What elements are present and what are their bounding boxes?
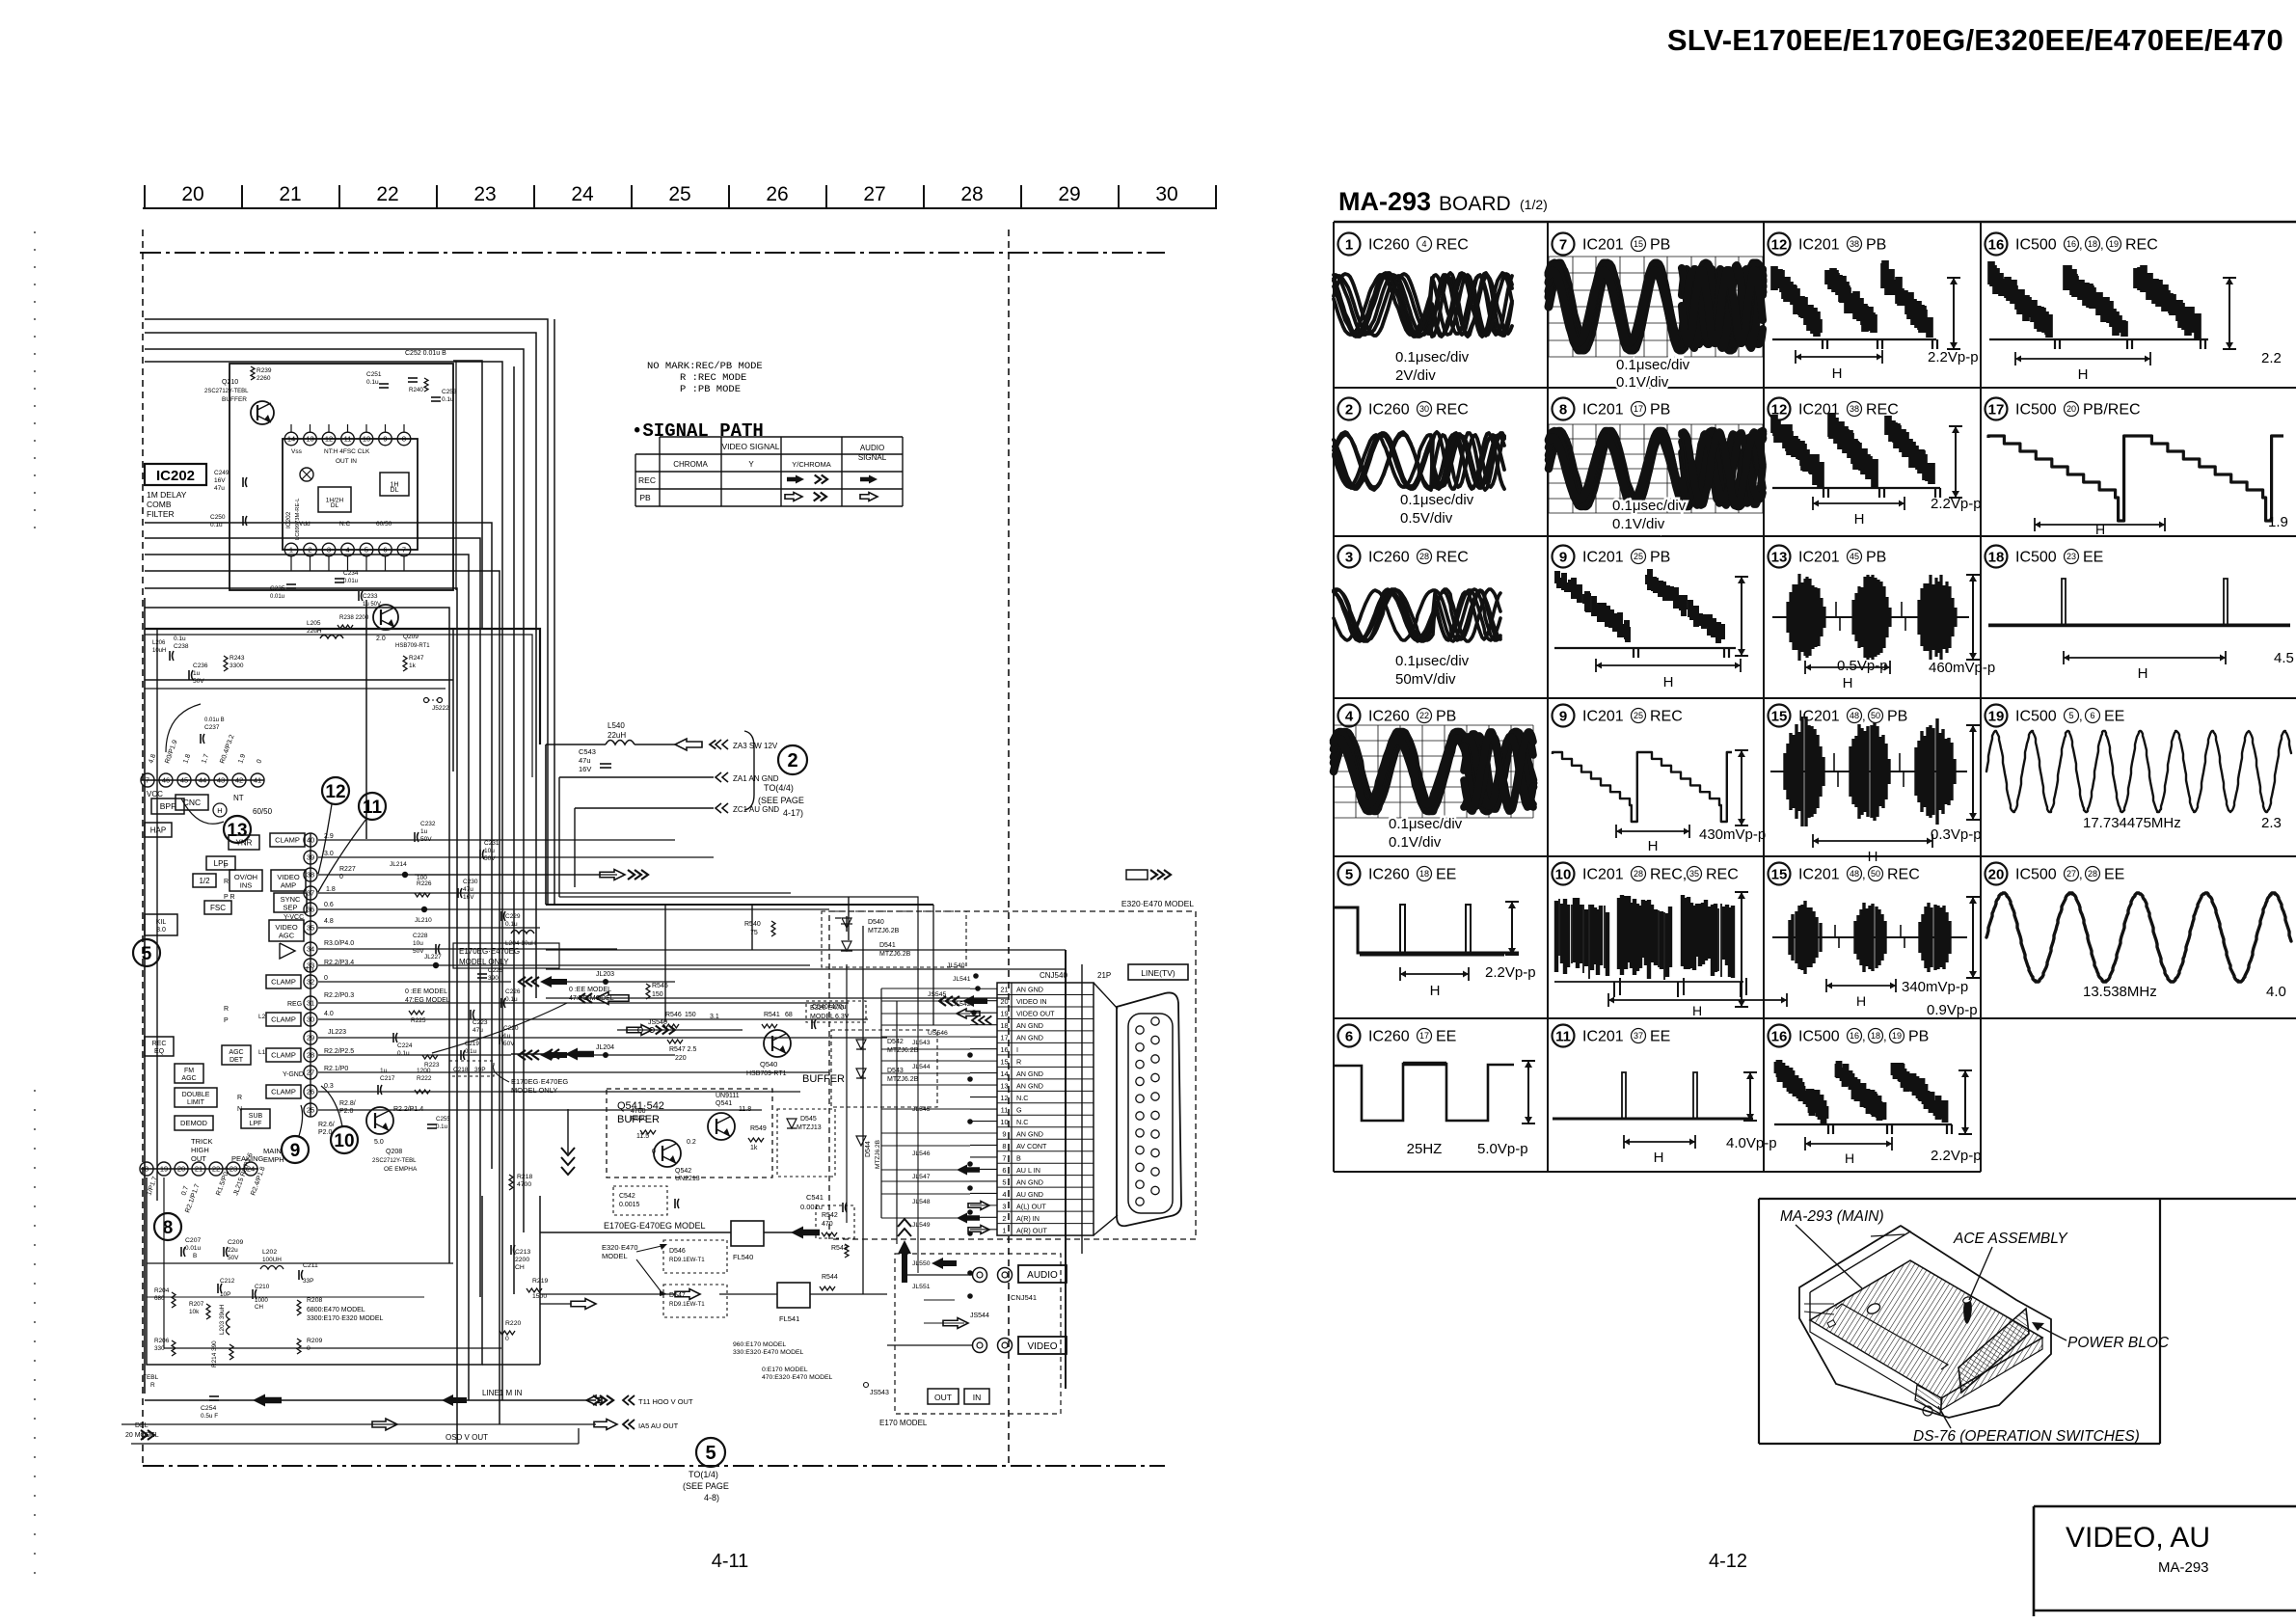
E320 E470 model small label [806,1001,866,1022]
svg-text:AN GND: AN GND [1016,1021,1043,1030]
svg-text:4-8): 4-8) [704,1493,719,1502]
svg-text:FM: FM [184,1068,194,1074]
schematic dashed border left [142,230,144,1466]
scope cell 20 IC500 pins27,28 EE [1985,863,2008,885]
svg-text:LIMIT: LIMIT [187,1099,205,1106]
bracket for TO4 [744,731,754,810]
open arrow to FL541 [675,1289,700,1300]
scope cell 1 IC260 pin4 REC [1338,233,1361,256]
svg-text:D540: D540 [868,919,884,926]
svg-text:23: 23 [473,183,496,205]
circled 11 [359,793,386,820]
black arrow to FL540 [791,1227,820,1239]
svg-text:27: 27 [863,183,885,205]
svg-text:50V: 50V [503,1041,515,1047]
capacitor C255 [427,1123,437,1125]
svg-text:H: H [2078,366,2089,383]
svg-text:OUT: OUT [934,1393,952,1402]
svg-text:13: 13 [1771,549,1788,565]
svg-text:0.1u: 0.1u [436,1123,448,1130]
black arrow left mid [565,1048,594,1061]
svg-text:REC: REC [1650,709,1683,725]
capacitor C207 [180,1247,182,1257]
svg-text:12: 12 [1000,1094,1008,1102]
svg-text:C238: C238 [174,643,189,650]
svg-text:D545: D545 [800,1116,817,1123]
svg-text:ZC1 AU GND: ZC1 AU GND [733,805,779,814]
svg-text:CH: CH [255,1304,263,1311]
angled label R0/P1.9 zone [166,704,201,752]
svg-text:37: 37 [307,889,314,898]
VIDEO label box [1018,1337,1067,1354]
svg-text:10u: 10u [413,940,423,947]
svg-text:12: 12 [325,435,333,444]
capacitor C229 [500,911,502,921]
box OV/OH INS [230,870,262,891]
svg-text:18: 18 [1988,549,2005,565]
svg-text:I: I [1016,1045,1018,1054]
svg-text:CH: CH [515,1264,525,1271]
svg-text:C213: C213 [515,1249,530,1256]
svg-text:AU GND: AU GND [1016,1190,1043,1199]
svg-text:22uH: 22uH [608,731,626,740]
svg-text:C217: C217 [380,1075,395,1082]
svg-text:C226: C226 [505,988,521,995]
svg-text:1u: 1u [420,828,428,835]
capacitor C237 [200,734,202,744]
svg-text:42: 42 [235,776,243,785]
svg-text:48: 48 [1850,711,1859,720]
capacitor C231 [479,850,481,859]
svg-text:MODEL ONLY: MODEL ONLY [511,1086,557,1095]
down chevrons under buffer [561,1148,575,1155]
model note box E170EG [453,943,559,968]
svg-text:PB: PB [1650,237,1670,254]
svg-text:MTZJ6.2B: MTZJ6.2B [887,1076,919,1083]
svg-text:11.8: 11.8 [739,1106,751,1113]
svg-text:2: 2 [787,750,797,771]
svg-text:C230: C230 [463,879,478,885]
svg-text:1: 1 [289,546,293,555]
svg-text:OUT IN: OUT IN [336,458,357,465]
OUT IN boxes [928,1389,959,1404]
box FM AGC [175,1064,203,1083]
svg-text:JS544: JS544 [970,1313,989,1319]
svg-text:6: 6 [383,546,387,555]
black arrow audio [932,1258,957,1269]
svg-text:ACE ASSEMBLY: ACE ASSEMBLY [1953,1231,2068,1247]
svg-text:9: 9 [290,1141,301,1161]
svg-text:H: H [1430,983,1441,999]
svg-text:330:E320·E470 MODEL: 330:E320·E470 MODEL [733,1349,804,1356]
svg-text:P R: P R [224,894,235,901]
svg-text:BPF: BPF [160,801,176,811]
audio jacks [973,1268,987,1283]
scope cell 13 IC201 pin45 PB [1769,546,1791,568]
transistor Q541 [708,1113,735,1140]
box VIDEO AGC [269,920,304,941]
box CLAMP pin28 [266,1048,301,1062]
svg-text:21P: 21P [1097,971,1111,980]
svg-text:44: 44 [199,776,206,785]
box HAP [145,823,172,837]
svg-text:D541: D541 [879,942,896,949]
zener D540 D541 dashed box [822,911,966,967]
svg-text:SLV-E170EE/E170EG/E320EE/E470E: SLV-E170EE/E170EG/E320EE/E470EE/E470 [1667,23,2283,57]
resistor R243 [224,656,228,671]
svg-text:17: 17 [1419,1031,1429,1041]
svg-text:REC: REC [1436,237,1469,254]
wire ZA1 AN GND [559,776,714,778]
svg-text:47u: 47u [214,485,225,492]
svg-text:6: 6 [2090,711,2094,720]
svg-text:AN GND: AN GND [1016,986,1043,994]
svg-text:1: 1 [1002,1226,1006,1234]
wire fl540 line [540,1232,731,1233]
capacitor C228 [435,944,437,954]
svg-text:IC260: IC260 [1368,550,1410,566]
svg-text:C224: C224 [397,1042,413,1049]
svg-text:C212: C212 [220,1278,235,1285]
svg-text:AV CONT: AV CONT [1016,1142,1047,1150]
svg-text:CLAMP: CLAMP [271,978,296,987]
svg-text:11: 11 [363,798,383,818]
svg-text:2260: 2260 [257,375,271,382]
svg-text:0 :EE MODEL: 0 :EE MODEL [405,988,447,995]
svg-text:TU: TU [305,967,313,974]
svg-text:4700: 4700 [517,1181,531,1188]
svg-text:IC260: IC260 [1368,1029,1410,1045]
svg-text:Vss: Vss [291,448,303,455]
svg-text:50V: 50V [193,678,204,685]
svg-text:60/50: 60/50 [376,521,392,528]
svg-text:PEAKING: PEAKING [231,1154,264,1163]
svg-text:,: , [2079,237,2083,252]
svg-text:,: , [2079,709,2083,723]
svg-text:5: 5 [365,546,368,555]
resistor R226 [415,893,430,897]
scope cell 15b IC201 pins48,50 REC [1769,863,1791,885]
box FSC [204,901,231,914]
svg-text:20: 20 [1000,997,1008,1006]
svg-text:E320·E470: E320·E470 [602,1243,638,1252]
svg-text:0.01u: 0.01u [270,594,284,600]
svg-text:8: 8 [145,1165,149,1174]
svg-text:DL: DL [391,487,399,494]
svg-text:SIGNAL: SIGNAL [858,453,887,462]
svg-text:G: G [1016,1106,1022,1115]
svg-text:Q210: Q210 [222,379,238,386]
svg-text:3: 3 [1345,549,1353,565]
scope cell 8 IC201 pin17 PB [1553,398,1575,420]
svg-text:PB: PB [1650,402,1670,419]
circled 13 [224,816,251,843]
svg-text:5: 5 [2068,711,2073,720]
svg-text:JL548: JL548 [912,1199,931,1205]
svg-text:50: 50 [1871,869,1880,879]
scope cell 6 IC260 pin17 EE [1338,1025,1361,1047]
svg-text:0.1u: 0.1u [366,379,379,386]
vertical collector wires [880,988,882,1218]
svg-text:2.3: 2.3 [2261,815,2282,831]
wire from IC202 top right [453,361,482,629]
svg-text:J5222: J5222 [432,705,449,712]
svg-text:26: 26 [307,1088,314,1096]
svg-text:FILTER: FILTER [147,509,175,519]
svg-text:IC500: IC500 [2015,402,2057,419]
svg-text:C542: C542 [619,1193,635,1200]
svg-text:28: 28 [1634,869,1643,879]
svg-text:BUFFER: BUFFER [802,1073,845,1085]
capacitor C233 [358,591,360,601]
svg-text:PB: PB [1887,709,1907,725]
svg-text:H: H [2138,665,2148,682]
svg-text:4.0: 4.0 [2266,984,2286,1000]
svg-text:0.001u: 0.001u [800,1203,823,1211]
svg-text:Y-VCC: Y-VCC [284,914,304,921]
svg-text:R208: R208 [307,1297,322,1304]
svg-text:H: H [1845,1150,1854,1166]
svg-text:R540: R540 [744,921,761,928]
svg-text:JL204: JL204 [596,1044,614,1051]
svg-text:R: R [237,1095,242,1101]
capacitor C223 [470,1010,472,1019]
capacitor C217 [377,1085,379,1095]
svg-text:18: 18 [1000,1021,1008,1030]
box KIL [145,914,177,935]
svg-text:Q208: Q208 [386,1149,402,1155]
capacitor C236 [188,670,190,680]
dashed box around jacks E170 [895,1254,1061,1414]
svg-text:3.1: 3.1 [710,1014,719,1020]
svg-text:8: 8 [402,435,406,444]
svg-text:SUB: SUB [249,1113,263,1120]
svg-text:Q541: Q541 [716,1100,732,1107]
svg-text:19: 19 [1000,1010,1008,1018]
svg-text:D547: D547 [669,1292,686,1299]
capacitor C218 dashed [449,1061,494,1076]
svg-text:(SEE PAGE: (SEE PAGE [683,1481,729,1491]
resistor R209 [297,1339,301,1354]
svg-text:MODEL ONLY: MODEL ONLY [459,958,509,966]
vertical feed wires center [545,744,547,905]
svg-text:1000: 1000 [255,1297,268,1304]
svg-text:0.1V/div: 0.1V/div [1612,516,1665,532]
svg-text:0.5u F: 0.5u F [201,1413,218,1420]
svg-text:17: 17 [1000,1034,1008,1042]
svg-text:R2.2/P1.4: R2.2/P1.4 [393,1106,423,1113]
open arrow ZA3 SW12V [675,739,702,750]
svg-text:C254: C254 [201,1405,216,1412]
svg-text:46: 46 [162,776,170,785]
svg-text:TRICK: TRICK [191,1137,213,1146]
connector to scart diagonals [1094,983,1118,1009]
svg-text:REC: REC [152,1041,167,1047]
svg-text:28: 28 [307,1051,314,1060]
svg-text:18: 18 [2088,239,2097,249]
svg-text:18: 18 [1419,869,1429,879]
svg-text:OSD V OUT: OSD V OUT [446,1433,488,1442]
board location diagram frame [1759,1198,2296,1200]
svg-text:Y: Y [748,460,754,469]
svg-text:C255: C255 [436,1116,450,1123]
svg-text:REC: REC [638,475,656,485]
black arrow into pin20 [962,995,987,1007]
box VIDEO AMP [271,870,306,891]
jumper JL214 [402,872,408,878]
svg-text:38: 38 [1850,239,1859,249]
svg-text:PB: PB [1866,237,1886,254]
svg-text:R547 2.5: R547 2.5 [669,1046,697,1053]
IC202 1H DL box [380,473,409,496]
wire ZC1 AU GND [575,807,714,809]
box YNR [229,835,259,850]
svg-text:IN: IN [973,1393,982,1402]
svg-text:13: 13 [306,435,313,444]
black arrow into pin6 AU L IN [957,1165,980,1176]
svg-text:19: 19 [2109,239,2119,249]
svg-text:JL551: JL551 [912,1284,931,1290]
svg-text:4: 4 [1421,239,1426,249]
svg-text:460mVp-p: 460mVp-p [1929,660,1995,676]
svg-text:0.1μsec/div: 0.1μsec/div [1395,349,1470,365]
wire LINE1 M IN [145,1399,596,1401]
svg-text:EE: EE [1650,1029,1670,1045]
svg-text:R222: R222 [417,1075,432,1082]
svg-text:C219: C219 [465,1041,479,1047]
box CLAMP pin32 with TU [266,975,301,988]
svg-text:2.2Vp-p: 2.2Vp-p [1931,496,1982,512]
svg-text:IC202: IC202 [285,511,292,528]
resistor R225 [409,1011,424,1015]
open arrow into pin19 [957,1009,980,1018]
svg-text:H: H [1832,365,1843,382]
svg-text:IC201: IC201 [1582,402,1624,419]
svg-text:IC260: IC260 [1368,867,1410,883]
long horizontal wires through center [546,968,1066,970]
svg-text:14: 14 [1000,1069,1008,1078]
svg-text:IC500: IC500 [1798,1029,1840,1045]
box CLAMP pin30 [266,1013,301,1026]
title block frame [2034,1505,2296,1508]
resistor R223 [422,1055,438,1059]
svg-text:MTZJ6.2B: MTZJ6.2B [879,951,911,958]
svg-text:MODEL: MODEL [602,1252,628,1260]
svg-text:2.2Vp-p: 2.2Vp-p [1928,349,1979,365]
svg-text:C210: C210 [255,1284,270,1290]
svg-text:0: 0 [505,1336,509,1342]
svg-text:IC260: IC260 [1368,402,1410,419]
svg-text:1k: 1k [750,1145,758,1151]
svg-text:JL214: JL214 [390,861,407,868]
svg-text:11: 11 [1555,1028,1571,1044]
svg-text:CLAMP: CLAMP [271,1051,296,1060]
svg-text:16: 16 [1771,1028,1788,1044]
resistor R238 [338,625,353,629]
svg-text:E170EG·E470EG: E170EG·E470EG [511,1077,568,1086]
svg-text:C232: C232 [420,821,436,827]
svg-text:VIDEO, AU: VIDEO, AU [2066,1522,2210,1554]
svg-text:27: 27 [2066,869,2076,879]
svg-text:5.0Vp-p: 5.0Vp-p [1477,1141,1528,1157]
resistor R204 [172,1292,176,1308]
svg-text:25HZ: 25HZ [1407,1141,1443,1157]
svg-text:LINE(TV): LINE(TV) [1141,968,1175,978]
svg-text:R2.6/: R2.6/ [318,1122,335,1128]
resistor R545 [646,984,650,999]
svg-text:3300:E170·E320 MODEL: 3300:E170·E320 MODEL [307,1315,383,1322]
svg-text:C249: C249 [214,470,230,476]
svg-text:TO(4/4): TO(4/4) [764,783,794,793]
svg-text:AN GND: AN GND [1016,1069,1043,1078]
svg-text:H: H [1854,511,1865,528]
svg-text:45: 45 [1850,552,1859,561]
scope cell 7 IC201 pin15 PB [1553,233,1575,256]
svg-text:4: 4 [345,546,349,555]
svg-text:L202: L202 [262,1249,277,1256]
svg-text:R238 2200: R238 2200 [339,614,369,621]
svg-text:6: 6 [1345,1028,1353,1044]
power block fin hatched [1958,1309,2029,1393]
svg-text:JL549: JL549 [912,1222,931,1229]
svg-text:16: 16 [1988,236,2005,253]
svg-text:E320·E470: E320·E470 [810,1005,844,1012]
svg-text:C541: C541 [806,1193,824,1202]
svg-text:D546: D546 [669,1248,686,1255]
svg-text:B: B [1016,1153,1021,1162]
svg-text:150: 150 [685,1012,696,1018]
scope cell 16b IC500 pins16,18,19 PB [1769,1025,1791,1047]
svg-text:R: R [1016,1058,1021,1067]
svg-text:7: 7 [402,546,406,555]
svg-text:47u: 47u [579,756,591,765]
capacitor C210 [252,1289,254,1299]
svg-text:IC500: IC500 [2015,867,2057,883]
svg-text:JL223: JL223 [328,1029,346,1036]
svg-text:REC: REC [1436,402,1469,419]
svg-text:2.9: 2.9 [324,833,334,840]
svg-text:0.3Vp-p: 0.3Vp-p [1931,826,1982,843]
svg-text:16: 16 [1850,1031,1859,1041]
IC202 label box [145,464,206,485]
svg-text:21: 21 [279,183,301,205]
resistor R207 [206,1304,210,1319]
svg-text:7: 7 [146,776,149,785]
svg-text:US546: US546 [928,1030,948,1037]
svg-text:DS-76 (OPERATION SWITCHES): DS-76 (OPERATION SWITCHES) [1913,1428,2140,1445]
svg-text:390: 390 [488,975,499,982]
wire JS540 [617,1029,743,1031]
svg-text:33P: 33P [303,1278,313,1285]
svg-text:9: 9 [1002,1129,1006,1138]
circled 5 left [133,939,160,966]
resistor R546 [663,1024,679,1028]
svg-text:0: 0 [307,1345,311,1352]
scope cell 16 IC500 pins16,18,19 REC [1985,233,2008,256]
svg-text:11: 11 [344,435,352,444]
svg-text:15: 15 [1000,1058,1008,1067]
circled 9 [282,1136,309,1163]
svg-text:PB: PB [1650,550,1670,566]
box CLAMP pin26 [266,1085,301,1098]
page border chain line top [140,252,1165,254]
svg-text:P: P [224,1017,229,1024]
resistor R541 [762,1024,777,1028]
svg-text:0.1u: 0.1u [397,1050,410,1057]
svg-text:AMP: AMP [281,881,296,890]
svg-text:10: 10 [1000,1118,1008,1126]
svg-text:JL547: JL547 [912,1174,931,1180]
